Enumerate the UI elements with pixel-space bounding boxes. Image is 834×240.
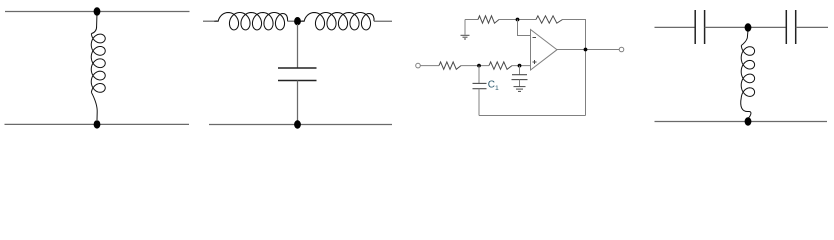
node dot top panel2 <box>294 17 301 25</box>
op-amp U1 triangle <box>531 30 558 71</box>
capacitor C panel2 plate top <box>278 67 317 69</box>
capacitor C panel2 plate bottom <box>278 80 317 82</box>
inductor L1 panel4 (vertical coil) <box>741 30 755 118</box>
node dot bottom panel2 <box>294 120 301 128</box>
wire right vertical feedback panel3 <box>585 20 587 116</box>
inductor L2 panel2 (horizontal coil) <box>301 13 375 30</box>
wire node B down to C2 <box>519 66 521 75</box>
node dot bottom panel1 <box>94 120 101 128</box>
wire R2 to opamp <box>512 65 531 67</box>
wire top-right panel2 <box>374 20 392 22</box>
node B dot panel3 <box>518 64 522 68</box>
ground symbol below C2 <box>514 87 526 92</box>
wire node A down to C1 <box>478 66 480 84</box>
wire ground to R3 <box>465 19 478 21</box>
wire mid panel2 <box>288 20 300 22</box>
capacitor C1 panel4 plate left <box>694 10 696 44</box>
capacitor C1 panel4 plate right <box>704 10 706 44</box>
terminal output panel3 <box>619 47 624 52</box>
wire R4 to corner <box>563 19 587 21</box>
node dot bottom panel4 <box>745 117 752 125</box>
resistor R1 panel3 <box>439 62 461 69</box>
wire C1 down to feedback rail <box>478 89 480 116</box>
node dot top panel1 <box>94 7 101 15</box>
wire bottom feedback rail panel3 <box>479 115 586 117</box>
op-amp minus sign <box>533 37 537 39</box>
wire top-left panel2 <box>203 20 215 22</box>
wire top-right panel4 <box>796 26 828 28</box>
wire vertical lower panel2 <box>297 81 299 125</box>
inductor L1 panel2 (horizontal coil) <box>215 13 288 30</box>
wire C2 to ground <box>519 80 521 87</box>
resistor R4 panel3 top <box>536 16 563 23</box>
ground symbol top-left panel3 <box>461 20 470 40</box>
inductor L1 panel1 (vertical coil) <box>91 13 105 120</box>
terminal input panel3 <box>416 63 421 68</box>
node A dot panel3 <box>477 64 481 68</box>
node output dot panel3 <box>584 48 588 52</box>
wire R3 to node C <box>499 19 536 21</box>
wire top-mid panel4 <box>705 26 786 28</box>
wire opamp output <box>557 49 620 51</box>
op-amp plus sign <box>533 60 537 64</box>
capacitor C1 plate top <box>473 82 487 84</box>
node dot top panel4 <box>745 23 752 31</box>
wire top-left panel4 <box>655 26 696 28</box>
capacitor C1 plate bottom <box>473 88 487 90</box>
wire top rail panel1 <box>5 11 190 13</box>
capacitor C2 plate top <box>512 74 527 76</box>
wire node C down to minus input <box>518 20 531 36</box>
wire input panel3 <box>421 65 440 67</box>
wire vertical upper panel2 <box>297 24 299 68</box>
resistor R3 panel3 top <box>478 16 499 23</box>
node C dot panel3 <box>516 18 520 22</box>
wire bottom rail panel4 <box>655 121 828 123</box>
capacitor C2 panel4 plate left <box>785 10 787 44</box>
wire bottom rail panel1 <box>5 123 190 125</box>
capacitor C2 panel4 plate right <box>795 10 797 44</box>
resistor R2 panel3 <box>489 62 512 69</box>
wire R1 to node A <box>461 65 489 67</box>
capacitor C2 plate bottom <box>512 79 528 81</box>
wire after node panel2 <box>298 20 302 22</box>
wire bottom rail panel2 <box>209 124 392 126</box>
